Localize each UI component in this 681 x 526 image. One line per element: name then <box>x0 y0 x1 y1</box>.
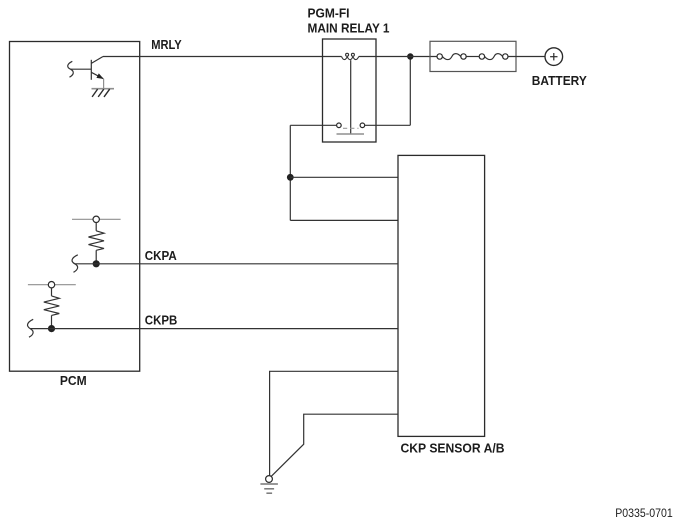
wire down from left contact <box>289 125 291 220</box>
svg-text:MAIN RELAY 1: MAIN RELAY 1 <box>308 20 390 35</box>
relay contact dashed link <box>343 127 359 129</box>
pull-up A rail <box>72 218 121 220</box>
relay contact left <box>337 123 342 128</box>
connector squiggle at Q1 base <box>68 61 74 77</box>
fuse terminal 1 <box>437 54 442 59</box>
wire sensor ground 1 <box>270 371 398 475</box>
wire right contact to B+ <box>365 124 411 126</box>
node junction dot (relay output) <box>287 174 294 181</box>
CKP sensor box <box>398 155 485 436</box>
earth ground terminal circle <box>266 476 273 483</box>
relay coil <box>342 53 359 59</box>
wire coil to armature <box>350 60 352 134</box>
wire relay to fuse box <box>359 56 437 58</box>
svg-text:PCM: PCM <box>60 373 87 388</box>
fuse terminal 3 <box>479 54 484 59</box>
fuse link wire <box>466 56 479 58</box>
svg-text:CKP SENSOR A/B: CKP SENSOR A/B <box>401 441 505 456</box>
svg-text:PGM-FI: PGM-FI <box>308 6 350 21</box>
fuse element 1 (wavy) <box>442 54 460 60</box>
wire up to B+ line <box>409 57 411 126</box>
transistor Q1 (NPN, inside PCM) <box>71 57 104 80</box>
svg-text:P0335-0701: P0335-0701 <box>615 508 673 520</box>
wire to CKP sensor pin 1 <box>290 176 398 178</box>
svg-text:MRLY: MRLY <box>151 37 182 52</box>
wire to CKP sensor pin 2 <box>290 219 398 221</box>
earth ground bars <box>260 484 278 493</box>
wire emitter to chassis ground <box>103 79 105 89</box>
battery (+ terminal) <box>545 48 563 66</box>
resistor R2 (CKPB pull-up) <box>44 288 60 329</box>
svg-text:CKPA: CKPA <box>145 248 178 263</box>
resistor R1 (CKPA pull-up) <box>89 223 105 264</box>
node junction dot on B+ line <box>407 53 413 59</box>
fuse box <box>430 41 516 71</box>
wire sensor ground 2 <box>271 414 398 476</box>
pull-up B terminal circle <box>48 282 54 288</box>
svg-text:CKPB: CKPB <box>145 313 178 328</box>
fuse terminal 2 <box>461 54 466 59</box>
wire CKPB <box>30 328 398 330</box>
relay contact right <box>360 123 365 128</box>
wire left contact out <box>290 124 336 126</box>
wire MRLY (collector to relay coil) <box>103 56 342 58</box>
relay armature bar <box>337 133 365 135</box>
node dot CKPB <box>48 325 55 332</box>
connector squiggle CKPB <box>28 319 34 337</box>
node dot CKPA <box>93 260 100 267</box>
PCM box <box>10 42 140 372</box>
pull-up B rail <box>28 284 76 286</box>
relay box PGM-FI MAIN RELAY 1 <box>323 39 377 142</box>
fuse terminal 4 <box>503 54 508 59</box>
chassis ground (transistor emitter) <box>92 89 115 97</box>
pull-up A terminal circle <box>93 216 99 222</box>
fuse element 2 (wavy) <box>485 54 503 60</box>
svg-text:BATTERY: BATTERY <box>532 73 587 88</box>
connector squiggle CKPA <box>72 255 78 272</box>
wire fuse box to battery <box>508 56 545 58</box>
wire CKPA <box>75 263 399 265</box>
